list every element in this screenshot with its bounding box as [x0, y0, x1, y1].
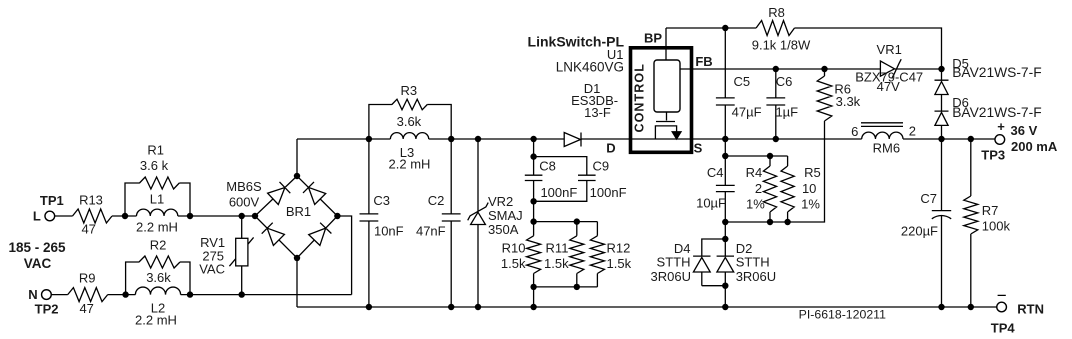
svg-text:47V: 47V — [877, 79, 900, 94]
svg-text:100nF: 100nF — [590, 185, 627, 200]
svg-text:36 V: 36 V — [1011, 123, 1038, 138]
svg-text:MB6S: MB6S — [226, 179, 262, 194]
svg-text:1%: 1% — [801, 196, 820, 211]
svg-text:13-F: 13-F — [584, 105, 611, 120]
svg-text:+: + — [997, 119, 1005, 134]
svg-text:47: 47 — [81, 222, 95, 237]
svg-text:C5: C5 — [733, 74, 750, 89]
svg-text:C9: C9 — [592, 158, 609, 173]
svg-text:2: 2 — [755, 181, 762, 196]
svg-text:BR1: BR1 — [286, 204, 311, 219]
svg-text:R11: R11 — [546, 240, 569, 255]
svg-text:C2: C2 — [428, 193, 445, 208]
svg-text:C4: C4 — [707, 165, 724, 180]
svg-text:FB: FB — [695, 54, 712, 69]
svg-text:D: D — [606, 140, 615, 155]
svg-text:1.5k: 1.5k — [501, 256, 526, 271]
svg-text:1%: 1% — [746, 196, 765, 211]
svg-text:TP1: TP1 — [40, 193, 64, 208]
svg-text:C7: C7 — [920, 191, 937, 206]
svg-text:BAV21WS-7-F: BAV21WS-7-F — [952, 105, 1041, 120]
svg-text:TP4: TP4 — [991, 320, 1016, 335]
svg-text:VR1: VR1 — [877, 42, 902, 57]
svg-text:1.5k: 1.5k — [607, 256, 632, 271]
svg-text:3.3k: 3.3k — [836, 94, 861, 109]
svg-text:SMAJ: SMAJ — [488, 208, 523, 223]
svg-text:R3: R3 — [400, 83, 417, 98]
svg-text:R2: R2 — [150, 238, 167, 253]
svg-text:L: L — [33, 209, 41, 224]
svg-text:BP: BP — [644, 31, 662, 46]
svg-text:6: 6 — [851, 124, 858, 139]
svg-text:350A: 350A — [488, 222, 519, 237]
svg-text:VAC: VAC — [24, 256, 52, 271]
svg-text:1µF: 1µF — [775, 105, 798, 120]
svg-text:D2: D2 — [736, 241, 753, 256]
svg-text:C3: C3 — [373, 193, 390, 208]
svg-text:VAC: VAC — [199, 262, 225, 277]
svg-text:STTH: STTH — [657, 255, 691, 270]
svg-text:RM6: RM6 — [873, 141, 900, 156]
svg-text:10: 10 — [802, 181, 816, 196]
svg-text:2.2 mH: 2.2 mH — [135, 313, 177, 328]
svg-text:3.6k: 3.6k — [146, 270, 171, 285]
svg-text:R9: R9 — [79, 271, 96, 286]
svg-text:RTN: RTN — [1017, 301, 1044, 316]
svg-text:47: 47 — [79, 301, 93, 316]
svg-text:R12: R12 — [607, 240, 631, 255]
svg-text:R7: R7 — [982, 203, 999, 218]
svg-text:L1: L1 — [150, 191, 164, 206]
svg-text:D4: D4 — [674, 241, 691, 256]
svg-text:CONTROL: CONTROL — [633, 63, 647, 133]
svg-text:S: S — [694, 140, 703, 155]
svg-text:R13: R13 — [79, 192, 103, 207]
svg-text:TP2: TP2 — [35, 302, 59, 317]
svg-text:47µF: 47µF — [732, 105, 762, 120]
svg-text:R10: R10 — [502, 240, 526, 255]
svg-text:3.6k: 3.6k — [397, 114, 422, 129]
svg-text:R5: R5 — [804, 165, 821, 180]
svg-text:2.2 mH: 2.2 mH — [136, 219, 178, 234]
svg-text:47nF: 47nF — [416, 224, 446, 239]
svg-text:220µF: 220µF — [901, 223, 938, 238]
svg-text:3R06U: 3R06U — [736, 269, 776, 284]
svg-text:3.6 k: 3.6 k — [140, 158, 169, 173]
svg-text:STTH: STTH — [736, 255, 770, 270]
svg-text:600V: 600V — [229, 195, 260, 210]
svg-text:PI-6618-120211: PI-6618-120211 — [799, 307, 886, 321]
svg-text:C6: C6 — [776, 74, 793, 89]
svg-text:9.1k 1/8W: 9.1k 1/8W — [752, 38, 811, 53]
svg-text:100nF: 100nF — [540, 185, 577, 200]
svg-text:2: 2 — [909, 124, 916, 139]
svg-text:TP3: TP3 — [981, 147, 1005, 162]
svg-text:C8: C8 — [539, 158, 556, 173]
svg-text:R1: R1 — [147, 143, 164, 158]
svg-text:10µF: 10µF — [696, 196, 726, 211]
svg-text:BAV21WS-7-F: BAV21WS-7-F — [952, 65, 1041, 80]
svg-text:LNK460VG: LNK460VG — [556, 60, 624, 75]
svg-text:200 mA: 200 mA — [1011, 139, 1058, 154]
svg-text:185 - 265: 185 - 265 — [9, 240, 67, 255]
svg-text:R4: R4 — [746, 165, 763, 180]
svg-text:10nF: 10nF — [374, 224, 404, 239]
svg-text:VR2: VR2 — [488, 194, 513, 209]
svg-text:100k: 100k — [982, 218, 1011, 233]
svg-text:2.2 mH: 2.2 mH — [389, 157, 431, 172]
svg-text:1.5k: 1.5k — [544, 256, 569, 271]
svg-text:R8: R8 — [768, 5, 785, 20]
svg-text:N: N — [28, 287, 37, 302]
svg-text:3R06U: 3R06U — [651, 269, 691, 284]
